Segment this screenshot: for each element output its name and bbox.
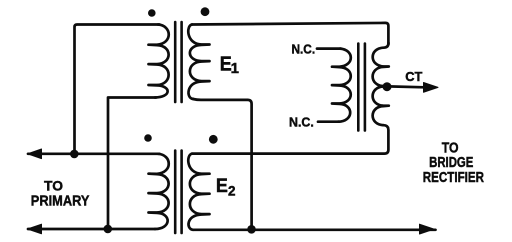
transformer T2 core (two laminations) (175, 151, 181, 234)
junction dot: output bus (247, 225, 256, 234)
wire: bottom primary bus to left arrow (28, 228, 155, 231)
junction dot: primary bus lower (104, 225, 113, 234)
svg-text:2: 2 (228, 184, 236, 199)
wire: top bus from T1 secondary top to T3 winding (right corner down) (192, 23, 388, 44)
wire: T1 secondary bottom right then down to output bus (crosses link wire) (193, 99, 252, 229)
transformer T1 secondary winding E1 (right, 4 loops) (188, 25, 209, 99)
arrowhead: upper TO PRIMARY arrow (points left) (28, 149, 42, 159)
transformer T2 secondary winding E2 (right, 4 loops) (188, 154, 209, 230)
phasing dot T1 primary (148, 9, 156, 17)
svg-text:1: 1 (231, 60, 239, 77)
transformer T3 balance winding right (4 loops with center tap) (373, 43, 389, 125)
arrowhead: CT arrow (424, 83, 439, 93)
svg-text:RECTIFIER: RECTIFIER (423, 170, 485, 186)
svg-text:TO: TO (44, 178, 63, 194)
wire: primary bus upper with junction to T2 primary top (28, 152, 160, 155)
svg-text:N.C.: N.C. (289, 115, 314, 130)
junction dot: primary bus upper (70, 150, 79, 159)
wire: N.C. stub bottom to T3 left winding bottom (318, 120, 339, 123)
wire: top-left horizontal from T1 primary top down left vertical to primary bus (75, 25, 160, 154)
arrowhead: lower TO PRIMARY arrow (points left) (28, 224, 42, 234)
phasing dot T1 secondary (201, 7, 210, 16)
svg-text:CT: CT (405, 69, 422, 84)
svg-text:E: E (216, 176, 228, 197)
arrowhead: TO BRIDGE RECTIFIER arrow (points right) (420, 224, 435, 234)
svg-text:TO: TO (442, 140, 459, 156)
wire: CT center-tap arrow line (points right) (388, 85, 425, 89)
phasing dot T2 secondary (209, 135, 218, 144)
wire: T1 primary bottom going left then down to bottom primary bus (108, 98, 156, 228)
transformer T3 core (two laminations) (358, 44, 365, 131)
phasing dot T2 primary (144, 134, 152, 142)
svg-text:N.C.: N.C. (292, 42, 316, 57)
svg-text:BRIDGE: BRIDGE (429, 155, 474, 171)
transformer T3 unused winding left (4 loops, N.C.) (332, 49, 351, 122)
wire: series link from T2 secondary top to T3 winding bottom (192, 125, 388, 153)
wire: N.C. stub top to T3 left winding top (317, 47, 341, 50)
junction dot: CT tap (383, 82, 392, 91)
transformer T1 primary winding (left, 4 loops) (149, 25, 169, 98)
transformer T1 core (two lamination lines) (175, 22, 181, 102)
wire: output bus from T2 secondary bottom to right arrow (193, 228, 436, 231)
transformer T2 primary winding (left, 4 loops) (149, 154, 169, 229)
svg-text:PRIMARY: PRIMARY (31, 193, 90, 210)
